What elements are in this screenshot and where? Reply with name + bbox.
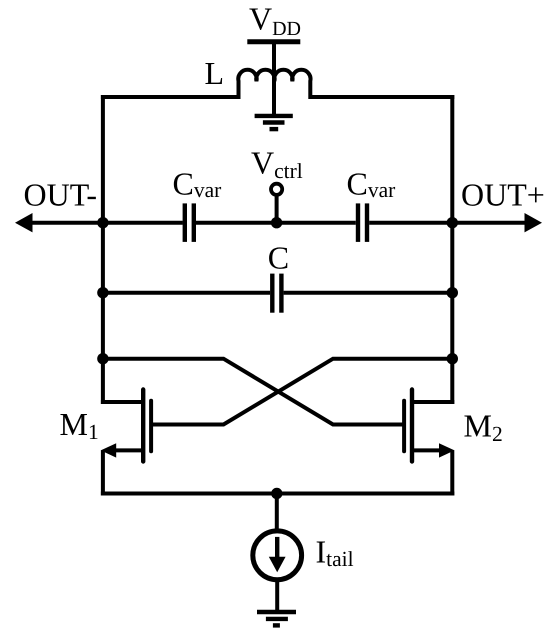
junction dot OUT+ node / right rail [447, 217, 458, 228]
junction dot OUT- node / left rail [97, 217, 108, 228]
terminal Vctrl circle [271, 184, 282, 195]
inductor L [238, 70, 310, 99]
wire Vctrl node line [196, 221, 356, 225]
ground (bottom) [257, 612, 296, 625]
current source Itail circle [253, 531, 302, 580]
svg-text:C: C [268, 240, 289, 276]
junction dot C row left [97, 287, 108, 298]
ground (top, inductor center tap) [255, 116, 293, 129]
wire C row right [284, 291, 455, 295]
varactor C_var (left) [185, 203, 194, 242]
transistor M1 [101, 390, 151, 462]
transistor M2 [404, 390, 454, 462]
wire top rail left (inductor to left rail) [101, 95, 239, 99]
junction dot cross row right (M2 drain) [447, 353, 458, 364]
svg-text:L: L [205, 55, 225, 91]
M1 source arrow [101, 443, 117, 457]
capacitor C [272, 274, 281, 313]
wire OUT- line [30, 221, 183, 225]
M2 drain lead [411, 400, 454, 404]
wire cross-couple: M2 drain to M1 gate [151, 359, 454, 425]
wire OUT+ line [369, 221, 526, 225]
wire cross-couple: M1 drain to M2 gate [101, 359, 404, 425]
wire top rail right (inductor to right rail) [310, 95, 454, 99]
wire C row left [101, 291, 270, 295]
varactor C_var (right) [358, 203, 367, 242]
M2 source lead [411, 448, 443, 452]
wire right rail (OUT+ node vertical) [450, 95, 454, 404]
wire M1 source to tail rail [101, 450, 105, 495]
M2 gate bar [402, 401, 406, 452]
M2 source arrow [439, 443, 455, 457]
wire current source to ground [275, 580, 279, 612]
wire M2 source to tail rail [450, 450, 454, 495]
M1 drain lead [101, 400, 144, 404]
svg-text:OUT-: OUT- [24, 177, 97, 213]
M1 source lead [112, 448, 144, 452]
power VDD bar [247, 39, 300, 44]
wire tail node (bottom rail) [101, 492, 454, 496]
M2 channel bar [410, 390, 414, 462]
current source arrow head [269, 557, 286, 573]
svg-text:OUT+: OUT+ [461, 177, 545, 213]
junction dot C row right [447, 287, 458, 298]
junction dot tail node [271, 488, 282, 499]
junction dot Vctrl node [271, 217, 282, 228]
wire left rail (OUT- node vertical) [101, 95, 105, 404]
wire Vctrl lead [275, 195, 279, 223]
arrow OUT- head [15, 213, 33, 232]
current source arrow shaft [275, 537, 279, 559]
wire tail node to current source [275, 494, 279, 533]
wire VDD center tap (vertical through inductor to ground) [272, 42, 276, 116]
M1 channel bar [141, 390, 145, 462]
arrow OUT+ head [525, 213, 543, 232]
M1 gate bar [149, 401, 153, 452]
junction dot cross row left (M1 drain) [97, 353, 108, 364]
